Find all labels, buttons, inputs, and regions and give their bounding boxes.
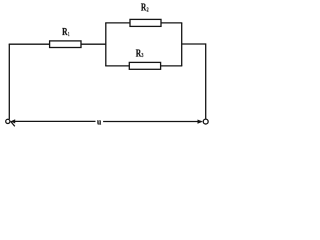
wire: top-left horizontal from corner to R1 bbox=[9, 43, 50, 45]
wire: node A to R3 bbox=[105, 65, 129, 67]
arrowhead left (points left at terminal) bbox=[11, 119, 16, 123]
wire: node B to top-right corner bbox=[182, 43, 206, 45]
wire: R1 to parallel node A bbox=[81, 43, 106, 45]
arrowhead left lower barb overshoot bbox=[11, 121, 15, 126]
arrowhead right (points right at terminal) bbox=[198, 120, 203, 124]
wire: R2 to node B bbox=[161, 22, 182, 24]
svg-text:2: 2 bbox=[147, 6, 149, 13]
svg-text:R: R bbox=[62, 27, 68, 38]
terminal: right open circle bbox=[203, 119, 208, 124]
resistor R3 bbox=[129, 62, 160, 69]
wire: left vertical from top-left corner down to left terminal bbox=[8, 44, 10, 119]
wire: R3 to node B bbox=[161, 65, 183, 67]
wire: right vertical down to right terminal bbox=[205, 43, 207, 119]
svg-text:1: 1 bbox=[68, 31, 70, 38]
voltage arrow u: right segment with arrowhead at right terminal bbox=[103, 121, 201, 123]
node A: left vertical of parallel pair bbox=[105, 23, 107, 66]
resistor R2 bbox=[130, 19, 161, 26]
resistor R1 bbox=[50, 41, 81, 48]
wire: node A to R2 bbox=[105, 22, 130, 24]
svg-text:3: 3 bbox=[142, 52, 144, 59]
node B: right vertical of parallel pair bbox=[181, 23, 183, 66]
terminal: left open circle bbox=[6, 119, 10, 123]
voltage arrow u: left segment with arrowhead at left terminal bbox=[12, 120, 96, 122]
svg-text:u: u bbox=[97, 117, 102, 126]
